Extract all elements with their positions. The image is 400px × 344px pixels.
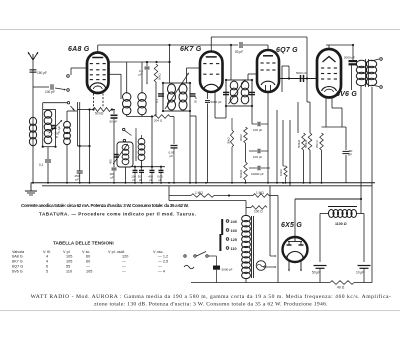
svg-text:pF: pF	[111, 175, 115, 179]
svg-text:μF: μF	[158, 178, 162, 182]
svg-text:50 pF: 50 pF	[110, 120, 118, 124]
svg-text:6: 6	[46, 265, 48, 269]
svg-text:0,1μF: 0,1μF	[57, 126, 61, 133]
svg-text:1 MΩ: 1 MΩ	[256, 191, 264, 195]
svg-text:240: 240	[231, 220, 237, 224]
svg-text:5000 pF: 5000 pF	[222, 268, 233, 272]
svg-text:—: —	[86, 265, 90, 269]
svg-text:4: 4	[46, 255, 48, 259]
svg-text:6K7 G: 6K7 G	[12, 260, 23, 264]
svg-text:30kΩ: 30kΩ	[227, 137, 231, 144]
svg-text:Corrente anodica totale: circa: Corrente anodica totale: circa 62 mA. Po…	[21, 203, 189, 208]
svg-text:V pl. oscil.: V pl. oscil.	[108, 250, 125, 254]
svg-text:0,1: 0,1	[155, 99, 159, 103]
svg-text:10kΩ: 10kΩ	[279, 169, 283, 176]
svg-text:120: 120	[122, 255, 128, 259]
svg-text:6X5 G: 6X5 G	[281, 222, 302, 229]
svg-text:— 2,5: — 2,5	[158, 260, 168, 264]
svg-text:Valvola: Valvola	[12, 250, 25, 254]
svg-text:—: —	[158, 265, 162, 269]
svg-text:60: 60	[86, 255, 90, 259]
svg-text:30kΩ: 30kΩ	[239, 134, 243, 141]
svg-text:50 pF: 50 pF	[235, 50, 243, 54]
svg-text:pF: pF	[55, 135, 59, 139]
svg-text:pF: pF	[139, 178, 143, 182]
svg-text:6Q7 G: 6Q7 G	[12, 265, 23, 269]
svg-text:5000 pF: 5000 pF	[211, 100, 222, 104]
svg-text:pF: pF	[132, 178, 136, 182]
svg-text:100 Ω: 100 Ω	[254, 210, 263, 214]
svg-text:150 pF: 150 pF	[37, 71, 47, 75]
svg-text:—: —	[122, 265, 126, 269]
svg-text:6A8 G: 6A8 G	[68, 46, 90, 53]
svg-text:5000 pF: 5000 pF	[344, 56, 355, 60]
svg-text:1100 Ω: 1100 Ω	[335, 222, 347, 226]
svg-text:55: 55	[66, 265, 70, 269]
svg-text:105: 105	[86, 270, 92, 274]
svg-text:60: 60	[86, 260, 90, 264]
svg-text:6V6 G: 6V6 G	[336, 91, 357, 98]
svg-text:50 kΩ: 50 kΩ	[95, 112, 104, 116]
svg-text:WATT RADIO - Mod. AURORA : Gam: WATT RADIO - Mod. AURORA : Gamma media d…	[31, 293, 392, 300]
svg-text:10 μF: 10 μF	[356, 271, 364, 275]
svg-text:TABELLA DELLE TENSIONI: TABELLA DELLE TENSIONI	[53, 241, 114, 246]
svg-text:105: 105	[66, 255, 72, 259]
svg-text:6A8 G: 6A8 G	[12, 255, 23, 259]
svg-text:pF: pF	[76, 178, 80, 182]
svg-text:—: —	[122, 260, 126, 264]
svg-text:— 4: — 4	[158, 270, 165, 274]
svg-text:100 pF: 100 pF	[45, 90, 55, 94]
svg-text:V. fil.: V. fil.	[43, 250, 51, 254]
svg-text:100 pF: 100 pF	[253, 128, 263, 132]
svg-text:μF: μF	[170, 154, 174, 158]
svg-text:50kΩ: 50kΩ	[158, 73, 162, 80]
svg-text:1 MΩ: 1 MΩ	[195, 191, 203, 195]
svg-text:TABATURA. — Procedere come i: TABATURA. — Procedere come indicato per …	[39, 212, 196, 217]
svg-text:160: 160	[231, 229, 237, 233]
svg-text:pF: pF	[149, 178, 153, 182]
svg-text:100 pF: 100 pF	[253, 155, 263, 159]
svg-text:105: 105	[66, 260, 72, 264]
svg-text:10000 pF: 10000 pF	[251, 172, 264, 176]
svg-text:50 μF: 50 μF	[312, 271, 320, 275]
svg-text:5000 pF: 5000 pF	[296, 71, 307, 75]
svg-text:—: —	[122, 270, 126, 274]
svg-text:0,1: 0,1	[39, 163, 44, 167]
svg-text:V pl: V pl	[63, 250, 70, 254]
svg-text:110: 110	[66, 270, 72, 274]
svg-text:500kΩ: 500kΩ	[304, 140, 308, 148]
svg-text:6V6 G: 6V6 G	[12, 270, 23, 274]
svg-text:V sc.: V sc.	[82, 250, 90, 254]
svg-text:125: 125	[231, 238, 237, 242]
svg-text:110: 110	[231, 247, 237, 251]
svg-text:5: 5	[46, 270, 48, 274]
svg-text:μF: μF	[349, 152, 353, 156]
svg-text:V osc.: V osc.	[153, 250, 164, 254]
svg-text:6Q7 G: 6Q7 G	[276, 47, 298, 54]
svg-text:500kΩ: 500kΩ	[297, 140, 301, 148]
svg-text:— 1,2: — 1,2	[158, 255, 168, 259]
svg-text:6K7 G: 6K7 G	[180, 46, 202, 53]
svg-text:4: 4	[46, 260, 48, 264]
svg-text:50 pF: 50 pF	[194, 96, 198, 103]
svg-text:450: 450	[109, 159, 113, 164]
svg-text:zione totale: 130 dB. Potenza: zione totale: 130 dB. Potenza d'uscita: …	[94, 302, 328, 308]
svg-text:40 Ω: 40 Ω	[337, 286, 345, 290]
svg-text:204 Ω: 204 Ω	[154, 119, 163, 123]
svg-text:500kΩ: 500kΩ	[239, 170, 243, 178]
svg-text:250 Ω: 250 Ω	[315, 140, 319, 148]
